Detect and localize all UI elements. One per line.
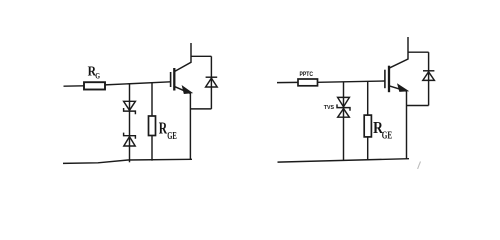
wire: left R_GE branch top bbox=[151, 83, 153, 116]
wire: right R_GE branch top bbox=[367, 81, 369, 115]
transistor Q1 emitter arrow bbox=[183, 86, 192, 93]
svg-text:GE: GE bbox=[382, 130, 393, 141]
wire: left circuit gate input stub bbox=[64, 85, 85, 87]
resistor R_GE (left) body bbox=[149, 116, 156, 136]
TVS diode (bidirectional) bbox=[337, 97, 350, 117]
svg-text:G: G bbox=[95, 70, 100, 80]
wire: TVS branch top bbox=[343, 82, 345, 109]
transistor Q1 IGBT body bar bbox=[173, 68, 175, 91]
wire: right circuit input stub bbox=[277, 81, 298, 83]
transistor Q2 IGBT gate bar bbox=[384, 70, 386, 89]
wire: right bottom rail bbox=[278, 159, 410, 162]
svg-text:TVS: TVS bbox=[324, 105, 334, 111]
wire: left R_GE branch bottom bbox=[151, 136, 153, 161]
transistor Q2 collector lead bbox=[389, 37, 408, 68]
resistor R_GE (right) body bbox=[364, 115, 371, 137]
wire: right diode branch upper bbox=[428, 52, 430, 80]
scan artifact streak bottom right bbox=[418, 162, 421, 170]
wire: left zener branch bottom bbox=[129, 146, 131, 162]
wire: right emitter to diode junction bbox=[407, 105, 429, 107]
wire: right collector to diode junction bbox=[408, 51, 429, 53]
label R_GE (right) bbox=[373, 118, 392, 141]
resistor PPTC body bbox=[298, 79, 318, 86]
transistor Q1 IGBT gate bar bbox=[170, 72, 172, 87]
svg-text:GE: GE bbox=[167, 131, 177, 142]
wire: left collector to diode junction bbox=[191, 55, 211, 57]
label R_GE (left) bbox=[159, 118, 177, 142]
diode D4 freewheel (right) bbox=[423, 71, 435, 81]
svg-text:PPTC: PPTC bbox=[300, 71, 314, 78]
wire: left gate wire from R_G to IGBT gate bbox=[105, 82, 171, 85]
diode D3 freewheel (left) bbox=[206, 77, 218, 87]
transistor Q2 IGBT body bar bbox=[388, 66, 390, 93]
wire: right R_GE branch bottom bbox=[367, 137, 369, 159]
wire: left bottom rail bbox=[63, 159, 192, 163]
wire: left diode branch upper bbox=[210, 56, 212, 87]
zener diode D2 (bottom, cathode up) bbox=[124, 133, 136, 146]
wire: left emitter to diode junction bbox=[190, 108, 211, 110]
wire: right gate wire from PPTC to IGBT gate bbox=[318, 81, 385, 82]
transistor Q1 emitter lead bbox=[174, 86, 190, 159]
transistor Q2 emitter lead bbox=[389, 86, 407, 159]
resistor R_G body bbox=[84, 82, 105, 89]
transistor Q2 emitter arrow bbox=[398, 85, 407, 92]
wire: left diode branch lower bbox=[210, 87, 212, 109]
wire: right diode branch lower bbox=[428, 80, 430, 105]
wire: between zeners bbox=[129, 110, 131, 146]
zener diode D1 (top, anode up) bbox=[124, 101, 136, 114]
transistor Q1 collector lead bbox=[174, 43, 191, 72]
label R_G bbox=[88, 63, 101, 80]
wire: TVS branch bottom bbox=[343, 109, 345, 161]
wire: left zener branch top bbox=[129, 84, 131, 111]
